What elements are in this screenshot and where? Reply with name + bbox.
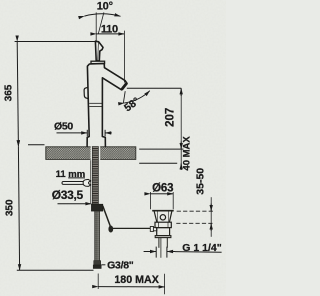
svg-text:10°: 10° — [97, 1, 113, 13]
G3/8 leader dash — [101, 264, 105, 266]
threaded shank below worktop — [91, 147, 99, 204]
dimension 207 line with arrows — [180, 88, 182, 170]
wrench symbol 11mm — [62, 179, 91, 186]
tailpiece rod — [160, 238, 162, 258]
svg-text:Ø50: Ø50 — [54, 121, 73, 133]
handle axis 10 deg slant line — [98, 12, 104, 33]
hose end fitting — [94, 261, 101, 266]
paper background — [0, 0, 226, 296]
worktop hatched section — [46, 146, 136, 160]
dimension 40 MAX arrow up — [180, 163, 182, 170]
dimension 110 extension line (spout tip vertical) — [123, 31, 125, 83]
tailpiece tube — [158, 238, 160, 248]
dimension 180 MAX witness lines — [97, 274, 99, 290]
pull rod ball joint — [108, 226, 113, 233]
svg-text:11 mm: 11 mm — [56, 169, 86, 180]
11 mm underline — [68, 177, 85, 179]
hole in worktop — [91, 146, 101, 160]
pop-up pull rod diagonal — [103, 206, 111, 227]
D63 witness lines — [149, 192, 151, 209]
svg-text:350: 350 — [4, 199, 15, 216]
extension line at worktop level — [28, 144, 45, 146]
faucet cartridge collar — [91, 61, 105, 63]
spout tip face heavy — [122, 83, 127, 90]
dimension D50 leader right — [105, 132, 112, 134]
flange top line — [152, 210, 174, 212]
D50 witness ticks — [86, 130, 88, 136]
svg-text:G 1 1/4": G 1 1/4" — [182, 242, 221, 254]
svg-text:35-50: 35-50 — [195, 168, 207, 195]
dimension D63 line — [150, 193, 160, 195]
dimension 180 MAX line — [98, 286, 131, 288]
angle 10 deg arc — [84, 14, 120, 17]
dimension G 1 1/4 line and ticks — [144, 251, 156, 253]
horizontal pop-up rod — [113, 227, 150, 229]
svg-text:365: 365 — [4, 84, 15, 101]
pop-up waste body — [152, 211, 174, 258]
svg-text:Ø63: Ø63 — [152, 182, 173, 194]
dimension 35-50 dashed line lower — [176, 222, 213, 224]
dimension 350 extension line bottom — [17, 269, 94, 271]
dimension 40 MAX extension lines — [139, 148, 183, 150]
svg-text:40 MAX: 40 MAX — [182, 136, 193, 171]
dimension 35-50 dashed line upper — [177, 210, 214, 212]
svg-text:180 MAX: 180 MAX — [114, 274, 159, 286]
dimension D50 leader left — [57, 132, 88, 134]
supply pipe line left — [90, 160, 92, 203]
dimension 365 extension line top — [15, 41, 96, 43]
svg-text:G3/8": G3/8" — [107, 260, 134, 272]
angle 58 deg short ray — [123, 91, 125, 103]
dimension 365 line — [17, 42, 18, 147]
dimension D33,5 leader — [58, 203, 92, 205]
rod connector at waste — [150, 227, 153, 232]
dimension 207 extension line from spout — [127, 87, 181, 89]
dimension 350 line — [18, 146, 19, 270]
body joint lines — [89, 102, 102, 104]
svg-text:110: 110 — [101, 23, 118, 35]
flexible supply hose braided — [93, 211, 105, 268]
dimension 110 line — [96, 33, 124, 35]
pop-up ball circle — [160, 215, 165, 220]
angle 58 deg arc — [124, 91, 150, 103]
faucet handle lever — [95, 41, 103, 61]
dimension 35-50 line with outside arrows — [210, 197, 212, 237]
G 1 1/4 underline — [175, 251, 222, 254]
flange sides — [154, 211, 157, 222]
waste body — [157, 228, 170, 236]
waste bottom lip — [155, 236, 171, 238]
side tab on body — [84, 87, 88, 98]
svg-text:Ø33,5: Ø33,5 — [52, 188, 84, 202]
faucet body and spout — [84, 63, 127, 146]
svg-text:207: 207 — [165, 108, 177, 127]
shank lock nut — [91, 204, 102, 211]
faucet centerline — [95, 12, 97, 41]
waste nut — [155, 222, 171, 227]
